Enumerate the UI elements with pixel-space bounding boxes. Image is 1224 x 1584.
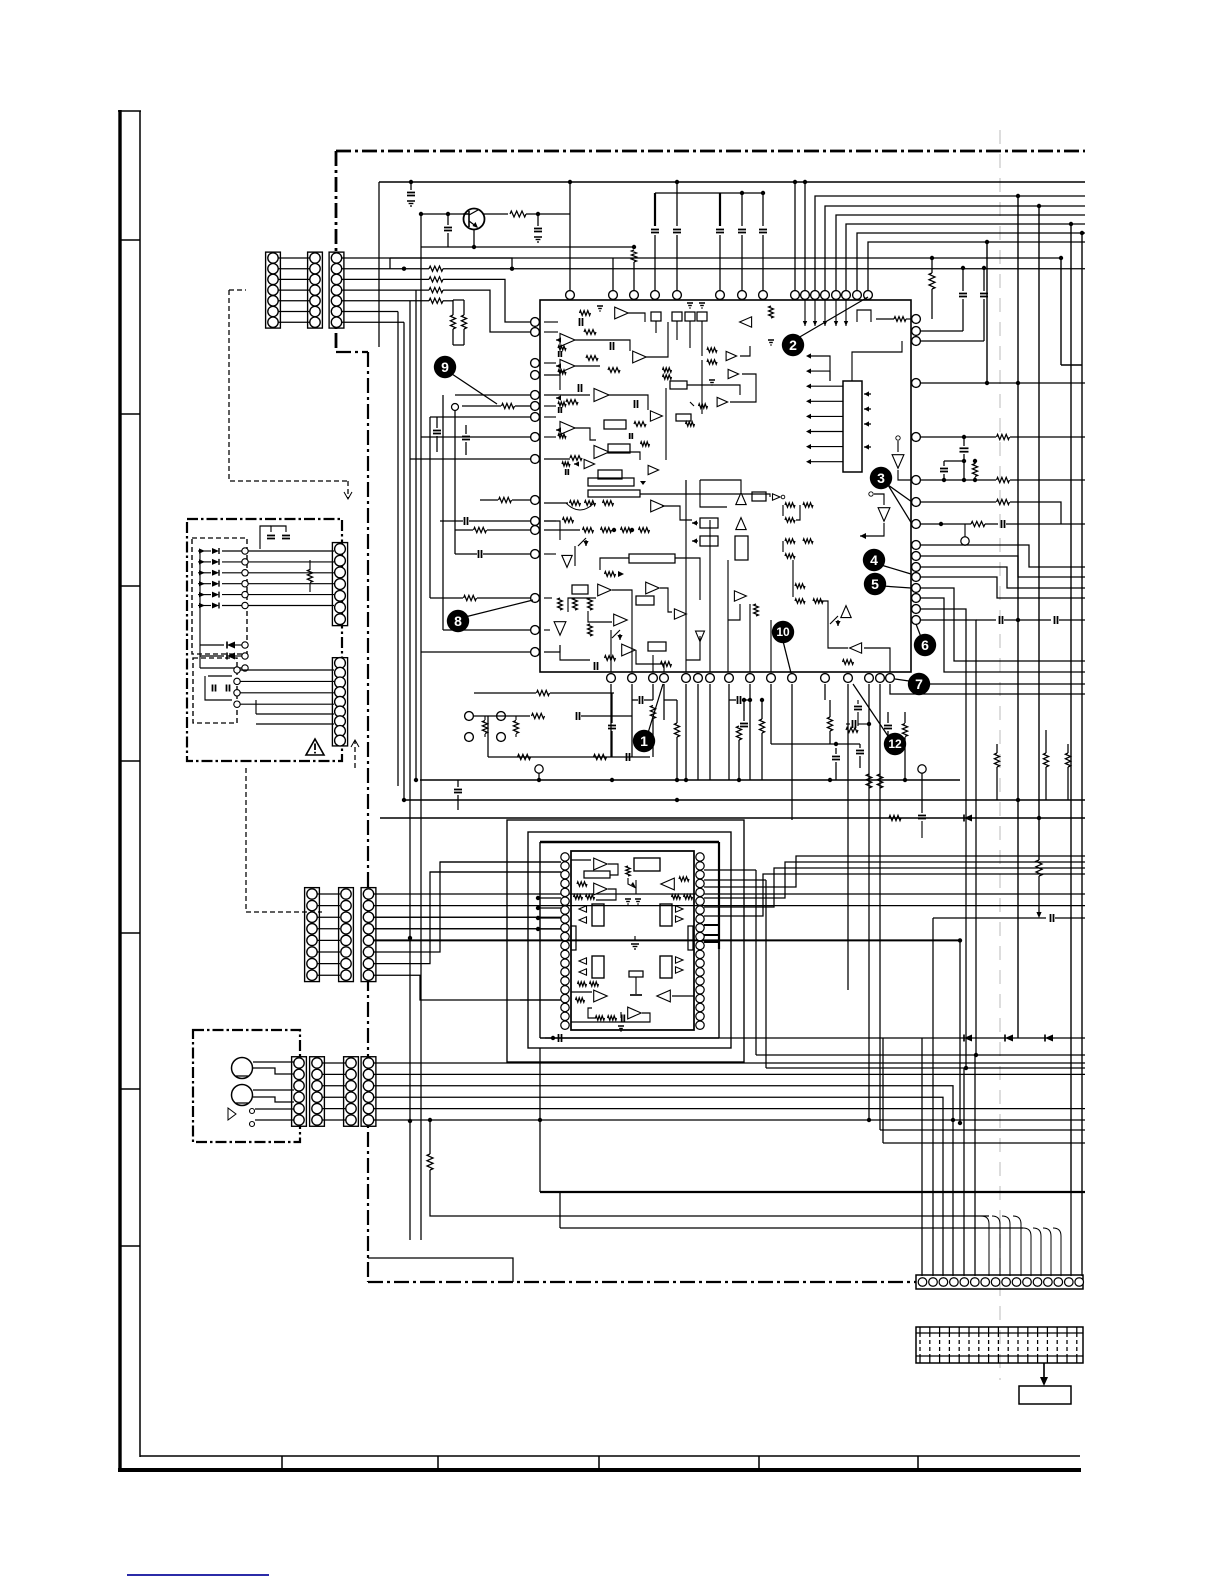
CN2 wire row5 bold — [374, 939, 960, 941]
vertical x964 to connector — [963, 1068, 965, 1276]
resistor v x964b — [972, 464, 977, 477]
U1 opamp A17 — [614, 614, 628, 626]
resistor v x677 — [674, 723, 679, 737]
standalone pin b — [465, 733, 474, 742]
bus x1061 jog to x1083 — [1061, 364, 1082, 366]
cap feed pin521 — [464, 517, 466, 525]
arrow to label box — [1043, 1363, 1045, 1382]
cap chain x964 — [963, 437, 965, 446]
cluster pin elbows to right bus — [815, 196, 1085, 291]
cap riser pin763 — [762, 193, 764, 226]
wire pin331 — [920, 330, 963, 332]
svg-text:9: 9 — [441, 359, 449, 375]
page frame left border thick — [118, 110, 121, 1472]
CN2 wire row8 — [374, 975, 561, 1000]
frame bottom tick 2 — [437, 1456, 439, 1469]
cap riser pin655 bold — [654, 193, 656, 226]
bottom-left connector strip A — [292, 1057, 307, 1127]
U1 opamp A11 down — [562, 555, 572, 567]
U2 lr tri 2 — [676, 967, 684, 973]
pol cap x922 y814 — [918, 815, 926, 817]
callout line 9 — [452, 374, 497, 404]
CN1 wire row1 elbow down — [342, 258, 512, 269]
LED feed vertical — [199, 551, 201, 668]
bottom-left connector strip D — [361, 1057, 376, 1127]
cap v x744 — [740, 723, 748, 725]
U1 knit wire k15 — [818, 601, 848, 648]
switch wires — [255, 1108, 294, 1110]
open pin x455 — [452, 404, 459, 411]
U1 opamp A14 — [598, 584, 612, 596]
U2 wrap inner box — [539, 842, 541, 1038]
CN1 wire row5 — [342, 300, 429, 302]
U2 opamp B2 — [594, 883, 608, 895]
bottom pin drop 611 — [610, 684, 612, 757]
frame top cap — [118, 110, 141, 112]
cap v x612 — [608, 725, 616, 727]
Q1 base wire — [421, 213, 463, 215]
step wire near boundary — [368, 1258, 513, 1282]
warning triangle — [306, 739, 324, 755]
resistor R row3 — [429, 277, 443, 282]
resistor R row4 — [429, 288, 443, 293]
U2 right up-elbow 1 — [704, 856, 1085, 887]
top rail wire y182 — [379, 181, 1085, 183]
transistor Q1 — [464, 209, 485, 230]
U2 left pins — [561, 853, 569, 861]
U2 top mid box — [634, 858, 660, 871]
cap riser pin677 — [676, 182, 678, 226]
CN9 pin circles — [918, 1278, 927, 1287]
U1 box arrows b5 — [700, 536, 718, 546]
cap feed pin554 — [478, 550, 480, 558]
U2 mid transistor — [628, 878, 636, 888]
vertical bundle wire 1 — [397, 312, 399, 787]
resistor R collector — [510, 211, 526, 217]
open pin on rail — [535, 765, 543, 773]
U1 small tri t1 — [773, 494, 781, 500]
frame left tick 6 — [121, 1088, 140, 1090]
U1 knit wire k3 — [610, 630, 612, 672]
U1 ladder top wire — [852, 341, 902, 381]
callout badge 5 — [864, 573, 886, 595]
connector CN1 strip C — [329, 252, 344, 328]
U1 opamp A22 left — [850, 643, 862, 653]
U2 right dac box — [660, 904, 672, 926]
U2 left dac tri 1 — [579, 906, 587, 912]
callout line 3b — [888, 485, 912, 524]
U2 wrap rect mid — [528, 832, 731, 1048]
U1 opamp A7 — [560, 422, 575, 435]
U1 box b2 — [608, 444, 630, 453]
frame left tick 2 — [121, 413, 140, 415]
shield boundary top edge dash-dot — [336, 150, 1085, 153]
U1 resistor r8 — [563, 518, 574, 523]
U1 mid verticals — [685, 480, 687, 672]
cap v x437 — [433, 430, 441, 432]
U2 mid T gnd — [635, 977, 637, 994]
U1 delay block 1 — [588, 478, 634, 486]
CN2 row3 entry — [374, 916, 561, 918]
U1 wire from delay3 — [600, 558, 629, 570]
U1 cap c3 — [634, 400, 636, 408]
left block resistor mid — [307, 570, 312, 583]
U1 ladder right arrows — [864, 393, 871, 395]
staircase wire pin620 long — [920, 620, 976, 1055]
left block dashed box 2 — [193, 658, 237, 723]
U1 opamp A20 down — [696, 631, 705, 642]
box2 caps — [212, 685, 214, 692]
svg-text:3: 3 — [877, 470, 885, 486]
U1 opamp A3 — [633, 351, 647, 363]
resistor trio x1068 — [1065, 753, 1070, 767]
motor M2 — [232, 1085, 253, 1106]
box2 pins — [234, 667, 240, 673]
U1 opamp A8 — [650, 411, 662, 421]
feed line y1228 — [560, 1227, 1023, 1229]
bundle junction dots — [408, 936, 412, 940]
U1 resistor r13 — [588, 624, 593, 636]
rail y818 — [380, 817, 1085, 819]
connector CN2 strip B — [339, 888, 354, 982]
Q1 base vertical — [420, 214, 422, 247]
U1 box b6 — [752, 492, 766, 501]
U1 resistor r1 — [584, 330, 596, 335]
U2 wrap top bold wire — [540, 841, 719, 843]
U1 extra opamp E4 — [584, 459, 595, 468]
U1 extra wire w3 — [687, 385, 740, 395]
U2 opamp B5 left — [657, 990, 671, 1002]
U1 top pins — [566, 291, 575, 300]
feed pin395 — [455, 394, 530, 396]
rail y744 — [771, 743, 860, 745]
callout badge 6 — [914, 634, 936, 656]
U2 right dac tri 2 — [676, 916, 684, 922]
bottom pin drop 698 — [697, 684, 699, 780]
blue underline mark — [127, 1574, 269, 1576]
callout line 6 — [916, 624, 921, 637]
U1 ground g2 — [768, 339, 774, 341]
U1 knit wire k7 — [675, 558, 700, 600]
CN2 wire row4 — [374, 928, 538, 930]
U1 cap c2 — [578, 384, 580, 392]
shield boundary bottom edge dash-dot — [368, 1281, 916, 1283]
cap right-top 2 — [980, 293, 988, 295]
vertical x922 down — [921, 1038, 923, 1276]
CN1 wire row3 — [342, 278, 429, 280]
U2 mid gnd b — [635, 898, 641, 900]
frame bottom tick 5 — [917, 1456, 919, 1469]
riser pin570 to rail — [569, 214, 571, 291]
line y918 with cap — [933, 917, 1046, 919]
U2 B3 resistor a — [679, 877, 689, 881]
left block dash-dot border — [187, 519, 342, 761]
wire y684 right — [928, 683, 1085, 685]
CN1 row5 wire stub — [443, 300, 453, 302]
bottom network row y757 — [488, 756, 650, 758]
U2 B6 cap — [620, 1012, 622, 1018]
U1 right pins — [912, 315, 921, 324]
diode D1 — [964, 1035, 972, 1042]
resistor R row2 — [429, 266, 443, 271]
U1 extra vertical x666 — [665, 388, 667, 460]
U1 knit wire k14 — [728, 604, 740, 620]
switch pins — [250, 1109, 255, 1114]
U1 knit wire k18 — [662, 506, 692, 520]
bottom connector CN9 housing — [916, 1275, 1083, 1289]
vertical x540 from U2 — [539, 1048, 541, 1192]
wire y716 with resistor and cap — [474, 715, 530, 717]
resistor v x739 — [736, 726, 741, 740]
bold horizontal y1192 — [540, 1191, 1085, 1193]
U1 opamp A23 up — [841, 606, 851, 618]
callout line 10 — [783, 641, 791, 673]
U2 B2 resistor c — [586, 895, 595, 899]
CN1 row2 wire long rail — [443, 268, 1085, 270]
left block connector strip D — [332, 543, 347, 626]
U1 opamp A1 — [615, 307, 629, 319]
bottom pin drop 710 — [709, 684, 711, 780]
U2 B4 resistor — [576, 998, 585, 1002]
U2 ll tri 2 — [579, 969, 587, 975]
risers cluster pins to rail — [794, 182, 796, 291]
U1 resistor row 2 — [583, 528, 594, 533]
svg-text:1: 1 — [640, 733, 648, 749]
wire y1068 to right edge — [766, 1067, 1085, 1069]
U1 delay block 3 — [629, 554, 675, 563]
U2 B1 feedback box — [584, 871, 610, 878]
U1 knit wire k6 — [636, 650, 664, 672]
vertical bundle wire 5 — [420, 247, 422, 1240]
diode D2 — [1005, 1035, 1013, 1042]
callout badge 8 — [447, 610, 469, 632]
svg-text:7: 7 — [915, 676, 923, 692]
U1 right-top resistor into pin319 — [894, 317, 906, 322]
U1 resistor r12 — [588, 598, 593, 610]
resistor v under 653 — [650, 706, 655, 719]
callout badge 3 — [870, 467, 892, 489]
standalone pin d — [497, 733, 506, 742]
U1 opamp A10 — [651, 500, 665, 512]
U1 box b3 — [598, 470, 622, 479]
dashed route B below block — [246, 768, 322, 912]
wire pin890 down elbow y694 — [890, 684, 1085, 694]
U1 bottom pins — [607, 674, 616, 683]
cap to ground at x411 — [410, 182, 412, 190]
U1 transistor pair 2 — [785, 539, 795, 543]
bottom pin drop 869 long — [868, 684, 870, 1120]
long horizontal y1143 — [883, 1142, 1085, 1144]
striped ribbon block — [916, 1327, 1083, 1363]
U2 B3 resistor b — [672, 895, 681, 899]
right bus vertical x1039 — [1038, 206, 1040, 860]
resistor into pin500 — [499, 497, 512, 502]
U1 resistor r4 vertical — [769, 306, 774, 318]
bottom pin drop 729 — [728, 684, 730, 780]
U1 extra wire w2 — [730, 374, 756, 402]
frame left tick 1 — [121, 239, 140, 241]
svg-text:2: 2 — [789, 337, 797, 353]
U1 resistor r9 — [605, 572, 616, 577]
staircase wire pin609 long — [920, 609, 966, 1068]
U1 knit wire k11 — [588, 611, 612, 622]
resistor feed pin598 — [464, 595, 477, 600]
U1 knit wire k12 — [560, 645, 590, 660]
U2 center gnd — [631, 943, 639, 945]
callout badge 2 — [782, 334, 804, 356]
feed pin417 — [430, 416, 530, 418]
U1 knit wire k1 — [574, 546, 576, 566]
connector CN1 strip B — [308, 252, 323, 328]
frame left tick 5 — [121, 932, 140, 934]
U1 opamp A5 left-facing — [740, 317, 752, 327]
resistor h x852 y730 — [846, 728, 858, 733]
frame left tick 3 — [121, 585, 140, 587]
cap riser pin742 — [741, 193, 743, 226]
left block connector strip E — [332, 658, 347, 746]
cap pol 2 — [856, 750, 864, 752]
bottom-left dash-dot box — [193, 1030, 300, 1142]
callout line 12 — [853, 684, 888, 736]
U1 extra resistor pair e3 — [663, 368, 672, 372]
callout line 1 — [648, 684, 663, 733]
callout badge 9 — [434, 356, 456, 378]
U2 B6 resistor a — [596, 1016, 605, 1020]
opamp A24 down — [892, 455, 904, 469]
U1 extra box e5 — [676, 414, 691, 421]
U1 extra input stub 2 — [556, 339, 560, 341]
junction stub x540 y1120 — [538, 1118, 542, 1122]
bottom pin drop 848 long — [847, 684, 849, 990]
U2 right pins — [696, 853, 704, 861]
U1 extra wire w1 — [740, 346, 750, 356]
CN2 wire row3 — [374, 916, 538, 918]
riser pin613 to y258 — [612, 258, 614, 291]
node riser to rail — [569, 182, 571, 214]
CN2 wire row2 — [374, 905, 1085, 907]
resistor v x830 — [827, 717, 832, 731]
U1 opamp A6 — [594, 389, 609, 402]
CN1 row7 wire — [342, 321, 404, 323]
U1 opamp A15 — [646, 582, 660, 594]
svg-text:8: 8 — [454, 613, 462, 629]
svg-text:10: 10 — [776, 625, 790, 639]
Q1 collector resistor wire — [484, 213, 508, 215]
U2 wrap rect outer — [507, 820, 744, 1062]
resistor v on x869 — [866, 774, 872, 788]
bottom pin drop 750 — [749, 684, 751, 780]
vertical x975 to connector — [974, 1055, 976, 1276]
open pin under y524 — [961, 537, 969, 545]
wire y437 long — [920, 436, 996, 438]
U2 mid resistor — [626, 866, 630, 876]
U2 right dac tri 1 — [676, 906, 684, 912]
cap v x858 y708 — [854, 706, 862, 708]
left area vertical x455 — [454, 411, 456, 554]
U1 elbow near cluster — [857, 310, 871, 322]
dashed route C arrow up — [354, 741, 356, 768]
U1 resistor r2 — [586, 356, 598, 361]
staircase wire pin556 — [920, 556, 1085, 577]
U2 ll tri 1 — [579, 958, 587, 964]
U1 knit wire k4 — [660, 588, 672, 612]
left drop from rail — [378, 182, 380, 347]
CN1 row4 wire elbow to pin332 — [443, 290, 530, 332]
wire y1055 to right edge — [756, 1054, 1085, 1056]
wire y693 with resistor — [474, 692, 536, 694]
callout line 3a — [888, 485, 912, 502]
callout badge 4 — [863, 549, 885, 571]
vertical bundle wire 3 — [409, 301, 411, 1240]
curved drop group 2 — [1023, 1228, 1031, 1276]
CN2 wire row7 — [374, 872, 561, 964]
right bus vertical x1071 — [1070, 224, 1072, 1192]
diode line y1038 — [545, 1037, 1085, 1039]
U1 delay block 2 — [588, 490, 640, 497]
bottom connector out row1 — [374, 1062, 1085, 1064]
U1 long wire to t1 — [640, 494, 770, 497]
U1 box b1 — [604, 420, 626, 429]
U2 ll resistor a — [578, 982, 587, 986]
left block caps top — [267, 535, 275, 537]
diode D3 — [1045, 1035, 1053, 1042]
U2 lr tri 1 — [676, 957, 684, 963]
staircase wire pin588 — [920, 588, 1085, 661]
staircase wire pin567 — [920, 567, 1085, 588]
shield boundary left edge lower dash-dot — [367, 352, 369, 1282]
cap right-top 1 — [959, 293, 967, 295]
U1 extra input stub 1 — [574, 463, 578, 465]
U1 opamp A21 — [734, 591, 746, 601]
U2 right up-elbow 3 — [704, 868, 1085, 907]
cap under pin 664 — [639, 696, 641, 704]
U2 left dac box — [592, 904, 604, 926]
U2 B2 resistor a — [577, 882, 587, 886]
U1 switch sym 1 — [578, 538, 586, 546]
U2 opamp B4 — [594, 990, 608, 1002]
U1 opamp A2 — [560, 334, 575, 347]
standalone pin c — [497, 712, 506, 721]
U1 ground g1 — [597, 305, 603, 307]
frame bottom tick 1 — [281, 1456, 283, 1469]
bottom pin drop 825 — [824, 684, 826, 700]
CN2 wire row1 — [374, 893, 1085, 895]
resistor net y502 — [920, 501, 996, 503]
vertical stub x883 — [882, 1038, 884, 1143]
U2 right wrap vertical 1 — [755, 870, 757, 1055]
shield boundary left edge upper dash-dot — [335, 151, 338, 352]
vertical bundle wire 2 — [403, 322, 405, 800]
U1 extra resistor e1 — [707, 348, 717, 352]
left block dashed box LED array — [192, 538, 247, 654]
U1 resistor r15 — [661, 662, 672, 667]
U1 extra input stub 5 — [556, 429, 560, 431]
bus x1071 to connector — [1070, 1192, 1072, 1276]
U1 box b7 — [735, 536, 748, 560]
frame left tick 4 — [121, 760, 140, 762]
CN1 A-B link wires — [278, 257, 310, 259]
bottom connector out row4 — [374, 1097, 943, 1276]
U1 resistor r11 — [573, 598, 578, 610]
bottom pin drop 880 long — [879, 684, 881, 1130]
motor M1 wires — [253, 1061, 294, 1063]
caps line y620 — [976, 619, 996, 621]
U1 knit wire k2 — [612, 590, 632, 672]
bottom pin drop 771 — [770, 684, 772, 744]
callout badge 10 — [772, 621, 794, 643]
U1 wires bottom-left — [544, 520, 556, 522]
U1 cap c1b — [579, 318, 581, 326]
